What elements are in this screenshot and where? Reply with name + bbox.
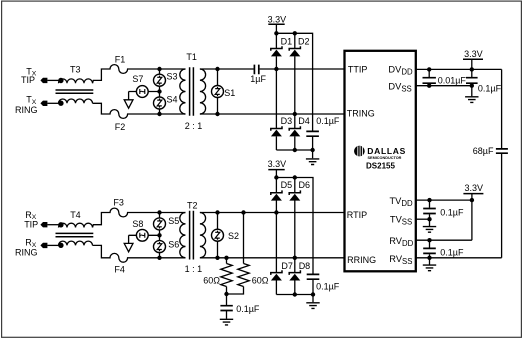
junction RVDD 0.1uF (427, 238, 431, 242)
svg-text:T2: T2 (187, 201, 198, 211)
junction bottom rail D8 (293, 292, 297, 296)
wire D5 column (275, 178, 277, 295)
junction rail D1 (274, 31, 278, 35)
wire D1 column (275, 33, 277, 150)
wire D2 column (294, 33, 296, 150)
svg-text:60Ω: 60Ω (203, 275, 220, 285)
wire TVDD (416, 199, 472, 201)
svg-text:S8: S8 (132, 219, 143, 229)
transformer T2 core (190, 211, 194, 260)
svg-text:S1: S1 (224, 88, 235, 98)
svg-text:D6: D6 (299, 180, 311, 190)
capacitor 0.01uF (423, 78, 436, 84)
wire 3.3V bus down (501, 69, 503, 257)
junction DVSS 0.01uF (427, 84, 431, 88)
wire TX clamp top rail (276, 33, 312, 130)
transformer T4 phase dot bottom (58, 243, 63, 248)
wire RVDD (416, 239, 472, 241)
svg-text:0.1µF: 0.1µF (478, 84, 502, 94)
svg-text:2 : 1: 2 : 1 (185, 121, 203, 131)
diode D4 (289, 126, 300, 136)
svg-text:T3: T3 (70, 65, 81, 75)
junction mid ladder node (157, 89, 161, 93)
wire RxTIP to T4 (47, 224, 59, 226)
junction TVSS (427, 217, 431, 221)
resistor R1 60ohm left (221, 258, 232, 294)
svg-text:0.1µF: 0.1µF (316, 281, 340, 291)
wire T4 top to F3 and fuse F3 (93, 208, 186, 227)
junction bottom ladder node (157, 112, 161, 116)
terminal Tx RING (40, 101, 47, 106)
wire DVSS (416, 85, 472, 87)
junction S2 bottom (215, 256, 219, 260)
power 3.3V rail (bottom right) (463, 183, 483, 200)
power 3.3V rail (top right) (463, 49, 483, 70)
junction top ladder node (157, 67, 161, 71)
diode D3 (271, 126, 282, 136)
svg-text:D4: D4 (298, 116, 310, 126)
junction rail D6 (293, 175, 297, 179)
transformer T4 core (56, 233, 94, 236)
svg-text:RRING: RRING (347, 255, 376, 265)
svg-text:F4: F4 (114, 265, 125, 275)
wire RVSS to ground (429, 258, 431, 265)
protector S3 (154, 74, 166, 86)
svg-text:S5: S5 (168, 216, 179, 226)
wire S1 column (217, 69, 219, 114)
wire T4 bottom to F4 and fuse F4 (93, 245, 186, 262)
wire DVSS to ground (471, 86, 473, 97)
junction S2 top (215, 210, 219, 214)
ground (RVSS) (423, 265, 436, 271)
wire S7 to chassis ground (128, 92, 130, 101)
svg-text:RING: RING (15, 247, 38, 257)
junction DVDD 3.3V (470, 67, 474, 71)
ground (TX clamp) (306, 159, 319, 165)
wire TVSS (416, 218, 430, 220)
junction bottom rail D4 (293, 148, 297, 152)
transformer T3 core (56, 90, 94, 93)
capacitor 0.1uF (RVDD) (423, 248, 436, 253)
junction S1 top (215, 67, 219, 71)
junction rail D2 (293, 31, 297, 35)
wire protector ladder S5/S6 (159, 213, 161, 258)
wire TRING net to chip (200, 113, 345, 115)
junction bottom rail cap RX (311, 292, 315, 296)
wire 3.3V to RVDD (471, 200, 473, 240)
node Rx TIP label (24, 210, 38, 230)
transformer T3 bottom winding (59, 99, 93, 103)
junction S1 bottom (215, 112, 219, 116)
svg-text:TRING: TRING (347, 108, 375, 118)
diode D8 (289, 270, 300, 280)
junction bottom ladder node RX (157, 256, 161, 260)
ground (termination cap) (220, 319, 233, 325)
svg-text:0.01µF: 0.01µF (438, 75, 467, 85)
svg-text:TIP: TIP (24, 220, 38, 230)
junction TVDD 0.1uF (427, 198, 431, 202)
node Tx TIP label (21, 66, 37, 85)
protector S7 (136, 86, 148, 98)
wire S2 column (217, 213, 219, 258)
junction R1 top on RRING (224, 256, 228, 260)
svg-text:68µF: 68µF (473, 146, 494, 156)
capacitor 0.1uF (termination) (220, 306, 232, 311)
transformer T1 secondary winding (200, 69, 206, 114)
svg-text:S4: S4 (167, 94, 178, 104)
junction TRING D2 (293, 112, 297, 116)
diode D5 (271, 190, 282, 200)
wire TIP to T3 (47, 79, 59, 81)
terminal Rx TIP (40, 222, 47, 227)
svg-text:SEMICONDUCTOR: SEMICONDUCTOR (368, 156, 402, 160)
protector S5 (154, 218, 166, 230)
svg-text:DS2155: DS2155 (366, 162, 395, 171)
diode D1 (271, 46, 282, 56)
svg-text:60Ω: 60Ω (252, 275, 269, 285)
junction TTIP D1 (274, 67, 278, 71)
svg-text:F1: F1 (115, 54, 126, 64)
transformer T2 secondary winding (200, 213, 206, 258)
resistor R2 60ohm right (227, 213, 250, 295)
wire S8 to chassis ground (128, 235, 130, 243)
wire RX clamp bottom rail (276, 279, 313, 302)
wire RVSS to bus (416, 257, 502, 259)
svg-text:3.3V: 3.3V (268, 159, 287, 169)
op-amp U1 DS2155 chip body (345, 51, 416, 271)
transformer T3 phase dot top (58, 78, 63, 83)
svg-text:S7: S7 (132, 74, 143, 84)
wire S8 to mid node (129, 234, 160, 236)
transformer T4 top winding (59, 223, 93, 227)
svg-text:RTIP: RTIP (347, 210, 367, 220)
svg-text:T4: T4 (70, 210, 81, 220)
wire TTIP net to chip (260, 68, 345, 70)
capacitor 0.01uF stubs (428, 69, 430, 85)
svg-text:1 : 1: 1 : 1 (185, 264, 203, 274)
svg-text:F2: F2 (115, 122, 126, 132)
transformer T4 phase dot top (58, 222, 63, 227)
svg-text:1µF: 1µF (250, 74, 266, 84)
transformer T1 primary winding (180, 69, 186, 114)
svg-text:TTIP: TTIP (348, 64, 368, 74)
svg-text:D5: D5 (281, 180, 293, 190)
chassis ground for S8 (124, 243, 133, 251)
wire center tap to capacitor (226, 294, 228, 305)
wire RTIP net to chip (200, 212, 345, 214)
capacitor 0.1uF (RX clamp) (307, 274, 320, 279)
svg-text:D1: D1 (281, 37, 293, 47)
wire RxRING to T4 (47, 244, 59, 246)
wire RRING net to chip (200, 257, 345, 259)
transformer T1 core (190, 67, 194, 115)
junction rail D5 (274, 175, 278, 179)
junction RRING D6 (293, 256, 297, 260)
svg-text:3.3V: 3.3V (465, 183, 484, 193)
junction RVSS (427, 256, 431, 260)
transformer T3 phase dot bottom (58, 101, 63, 106)
svg-text:D3: D3 (281, 116, 293, 126)
protector S2 (212, 229, 224, 241)
junction R1/R2 bottom (224, 292, 228, 296)
capacitor 0.1uF (TX clamp) (306, 131, 319, 136)
junction top ladder node RX (157, 210, 161, 214)
wire TVSS to ground (429, 219, 431, 226)
svg-text:3.3V: 3.3V (268, 14, 287, 24)
capacitor 0.1uF (top right) (466, 78, 478, 84)
capacitor 0.1uF stubs (RVDD) (429, 240, 431, 258)
ground (TVSS) (423, 227, 436, 233)
svg-text:0.1µF: 0.1µF (236, 304, 260, 314)
chassis ground for S7 (124, 100, 133, 108)
node Tx RING label (15, 95, 38, 115)
capacitor 0.1uF stubs (TVDD) (429, 200, 431, 219)
wire capacitor to ground (226, 311, 228, 319)
wire TX clamp bottom rail (276, 136, 312, 158)
wire T1 secondary top to capacitor (200, 68, 254, 70)
terminal Tx TIP (40, 78, 47, 83)
terminal Rx RING (40, 243, 47, 248)
capacitor 0.1uF stubs (top right) (471, 69, 473, 85)
svg-text:TIP: TIP (21, 75, 35, 85)
wire S7 to mid node (129, 91, 160, 93)
protector S4 (154, 97, 166, 109)
power 3.3V rail (RX clamp) (268, 159, 287, 178)
transformer T4 bottom winding (59, 241, 93, 245)
svg-text:T1: T1 (186, 52, 197, 62)
wire protector ladder S3/S4 (159, 69, 161, 114)
capacitor 68uF (496, 149, 508, 153)
svg-text:D7: D7 (281, 261, 293, 271)
junction TVDD 3.3V (470, 198, 474, 202)
wire DVDD to 3.3V bus (416, 68, 502, 70)
svg-text:S3: S3 (167, 72, 178, 82)
svg-text:S2: S2 (228, 231, 239, 241)
svg-text:3.3V: 3.3V (464, 49, 483, 59)
svg-text:0.1µF: 0.1µF (440, 207, 464, 217)
svg-text:S6: S6 (168, 239, 179, 249)
svg-text:0.1µF: 0.1µF (440, 247, 464, 257)
capacitor 0.1uF (TVDD) (423, 209, 436, 214)
ground (RX clamp) (306, 303, 319, 309)
wire T3 bottom to F2 and fuse F2 (93, 103, 186, 118)
wire D6 column (294, 178, 296, 295)
protector S1 (212, 86, 224, 98)
diode D6 (289, 190, 300, 200)
svg-text:D8: D8 (299, 261, 311, 271)
power 3.3V rail (TX clamp) (268, 14, 287, 33)
transformer T2 primary winding (180, 213, 186, 258)
wire T3 top to F1 and fuse F1 (93, 65, 186, 84)
wire RING to T3 (47, 102, 59, 104)
svg-text:D2: D2 (298, 37, 310, 47)
junction RTIP D5 (274, 210, 278, 214)
transformer T3 top winding (59, 79, 93, 83)
svg-text:DALLAS: DALLAS (367, 146, 406, 156)
junction DVSS 0.1uF (470, 84, 474, 88)
diode D7 (271, 270, 282, 280)
wire RX clamp top rail (276, 178, 313, 274)
junction DVDD 0.01uF (427, 67, 431, 71)
svg-text:RING: RING (15, 105, 38, 115)
junction bottom rail cap (310, 148, 314, 152)
svg-text:0.1µF: 0.1µF (316, 116, 340, 126)
junction mid ladder node RX (157, 233, 161, 237)
protector S8 (136, 229, 148, 241)
Dallas logo mark (354, 146, 365, 157)
node Rx RING label (15, 238, 38, 258)
ground (DVSS) (465, 97, 478, 103)
protector S6 (154, 241, 166, 253)
capacitor C 1uF (254, 65, 258, 75)
svg-text:F3: F3 (113, 197, 124, 207)
diode D2 (289, 46, 300, 56)
junction R2 top on RTIP (241, 210, 245, 214)
